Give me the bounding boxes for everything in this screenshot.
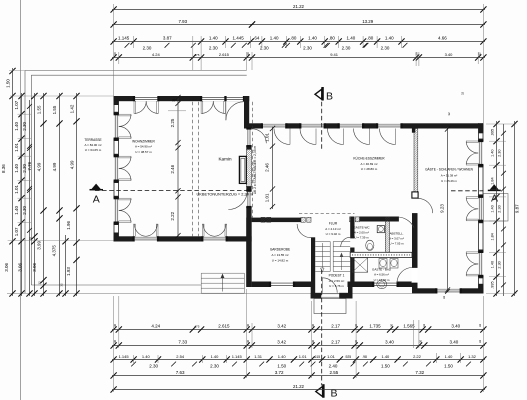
- bad south window: [373, 281, 397, 287]
- svg-text:PODEST 1: PODEST 1: [329, 274, 345, 278]
- garderobe east wall / stair wall: [311, 237, 315, 287]
- svg-text:32: 32: [461, 92, 465, 96]
- left chain 7 short: [65, 235, 67, 296]
- flur north jamb blocks west: [301, 217, 305, 222]
- exterior stair south: [201, 272, 244, 274]
- entry porch left stub: [311, 293, 322, 299]
- svg-text:2.615: 2.615: [219, 52, 230, 57]
- shower with X: [352, 258, 368, 272]
- guest interior chain 9.23: [447, 127, 449, 292]
- svg-text:1.01: 1.01: [14, 143, 19, 152]
- svg-text:1.01: 1.01: [265, 132, 270, 141]
- svg-text:1.40: 1.40: [445, 354, 454, 359]
- svg-text:2.25: 2.25: [170, 118, 175, 127]
- svg-text:B: B: [326, 90, 333, 102]
- svg-text:1.01: 1.01: [299, 354, 308, 359]
- west wall window 2: [114, 156, 119, 180]
- svg-text:1.735: 1.735: [369, 323, 381, 328]
- partition kitchen/guest hatched glass wall: [414, 129, 418, 192]
- svg-text:KÜCHE-ESSZIMMER: KÜCHE-ESSZIMMER: [353, 157, 385, 161]
- kitchen west window lower: [246, 191, 252, 207]
- section marker B top: [315, 89, 322, 99]
- svg-text:GÄSTE-WC: GÄSTE-WC: [353, 225, 370, 229]
- top dimension row 21.22: [112, 9, 485, 11]
- svg-text:1.565: 1.565: [403, 323, 415, 328]
- svg-text:4.375: 4.375: [51, 245, 56, 257]
- bottom row D: [112, 375, 485, 377]
- terrace outline inner: [31, 74, 246, 76]
- svg-text:U = 7.05 m: U = 7.05 m: [389, 242, 404, 246]
- svg-text:1.01: 1.01: [327, 354, 336, 359]
- bottom sub labels 2.30 1.50 2.40: [131, 362, 136, 367]
- svg-text:2.30: 2.30: [22, 122, 27, 131]
- guest south window: [436, 288, 460, 293]
- svg-text:UK 2 x STAHLTRÄGER = 2,35 m: UK 2 x STAHLTRÄGER = 2,35 m: [253, 145, 257, 194]
- svg-text:.995: .995: [490, 129, 494, 136]
- svg-text:A = 46.69 m²: A = 46.69 m²: [360, 162, 377, 166]
- svg-text:9.23: 9.23: [440, 204, 445, 213]
- svg-text:2.40: 2.40: [329, 364, 338, 369]
- svg-text:A = 54.90 m²: A = 54.90 m²: [135, 145, 152, 149]
- guest room east wall: [478, 123, 480, 293]
- svg-text:3.40: 3.40: [445, 52, 454, 57]
- svg-text:32: 32: [422, 324, 426, 328]
- bad door in partition: [412, 268, 418, 284]
- svg-text:1.32: 1.32: [468, 354, 477, 359]
- plumbing wall hatched wc/abstell: [385, 217, 389, 252]
- svg-text:2.30: 2.30: [381, 45, 390, 50]
- svg-text:2.30: 2.30: [342, 45, 351, 50]
- garderobe south window: [270, 281, 294, 287]
- flur north jamb blocks east: [350, 217, 354, 222]
- svg-text:7.63: 7.63: [176, 370, 185, 375]
- svg-text:30: 30: [28, 237, 32, 241]
- right chain 2.30 pairs: [503, 124, 505, 296]
- garderobe west wall: [246, 218, 251, 287]
- north wall opening 2: [201, 96, 225, 101]
- guest east window 2: [478, 197, 483, 221]
- svg-text:U = 28.80 m: U = 28.80 m: [361, 167, 378, 171]
- kitchen west wall hatched strip: [246, 149, 251, 186]
- svg-text:1.01: 1.01: [14, 185, 19, 194]
- wc door arc: [341, 237, 351, 247]
- garderobe north wall: [252, 218, 301, 223]
- svg-text:2.30: 2.30: [149, 364, 158, 369]
- svg-text:A = 13.55 m²: A = 13.55 m²: [271, 253, 288, 257]
- svg-text:7.93: 7.93: [179, 19, 188, 24]
- svg-text:7.76: 7.76: [27, 161, 32, 170]
- bad toilet: [377, 280, 387, 289]
- living room north wall: [114, 96, 250, 101]
- svg-text:1.40: 1.40: [142, 354, 151, 359]
- left extension stubs: [10, 95, 114, 97]
- svg-text:A = 84.00 m²: A = 84.00 m²: [84, 143, 101, 147]
- svg-text:2.30: 2.30: [209, 45, 218, 50]
- stair down arrow: [321, 268, 325, 272]
- svg-text:U = 38.57 m: U = 38.57 m: [135, 150, 152, 154]
- svg-text:2.30: 2.30: [22, 206, 27, 215]
- svg-text:1.42: 1.42: [69, 104, 74, 113]
- svg-text:U = 7.39 m: U = 7.39 m: [354, 235, 369, 239]
- svg-text:2.22: 2.22: [413, 354, 422, 359]
- svg-text:1.55: 1.55: [52, 105, 57, 114]
- svg-text:2.30: 2.30: [303, 45, 312, 50]
- left chain 4 7.76: [34, 93, 36, 296]
- right chain 9.87: [514, 121, 516, 296]
- svg-text:3.40: 3.40: [450, 339, 459, 344]
- living corner door arc: [225, 102, 227, 121]
- svg-text:1.50: 1.50: [277, 364, 286, 369]
- svg-text:GARDEROBE: GARDEROBE: [270, 248, 290, 252]
- svg-text:32: 32: [38, 281, 42, 285]
- wc toilet: [366, 240, 374, 250]
- svg-text:2.30: 2.30: [210, 364, 219, 369]
- guest room north wall: [418, 123, 483, 128]
- svg-text:2.615: 2.615: [218, 323, 230, 328]
- entry porch left jog: [311, 287, 316, 299]
- svg-text:1.40: 1.40: [490, 150, 494, 157]
- kitchen north window 1: [262, 123, 286, 128]
- bad sink 2: [390, 259, 398, 269]
- svg-text:1.40: 1.40: [347, 35, 356, 40]
- svg-text:1.40: 1.40: [278, 354, 287, 359]
- entry porch right jog: [348, 287, 353, 299]
- north wall opening 1: [134, 96, 158, 101]
- kitchen north window 2: [300, 123, 324, 128]
- kitchen west chain: [272, 127, 274, 210]
- svg-text:1.40: 1.40: [14, 122, 19, 131]
- guest east window 1: [478, 141, 483, 165]
- svg-text:3.87: 3.87: [163, 35, 172, 40]
- svg-text:UKBETONUNTERZUG = 2,30 m: UKBETONUNTERZUG = 2,30 m: [197, 192, 254, 197]
- svg-text:4.99: 4.99: [69, 160, 74, 169]
- svg-text:1.40: 1.40: [382, 354, 391, 359]
- svg-text:1.145: 1.145: [118, 35, 130, 40]
- bottom row B: [112, 345, 485, 347]
- svg-text:2.17: 2.17: [331, 339, 340, 344]
- entry door arc: [321, 278, 323, 293]
- svg-text:A = 4.13 m²: A = 4.13 m²: [325, 227, 340, 231]
- kitchen west wall lower: [246, 207, 251, 287]
- svg-text:2.30: 2.30: [260, 45, 269, 50]
- svg-text:U = 9.02 m: U = 9.02 m: [326, 232, 341, 236]
- svg-text:1.50: 1.50: [444, 364, 453, 369]
- svg-text:Kamin: Kamin: [218, 157, 231, 162]
- svg-text:A: A: [93, 194, 100, 206]
- svg-text:21.22: 21.22: [293, 4, 305, 9]
- svg-text:A = 3.07 m²: A = 3.07 m²: [389, 237, 404, 241]
- bottom extension lines: [113, 296, 115, 392]
- garderobe north hatch blocks: [261, 217, 265, 222]
- svg-text:1.84: 1.84: [490, 233, 494, 240]
- svg-text:2.30: 2.30: [497, 150, 501, 157]
- svg-text:1.40: 1.40: [385, 35, 394, 40]
- entry door threshold: [321, 293, 339, 295]
- section marker B bottom: [316, 386, 323, 396]
- living south wall window arcs: [134, 224, 136, 236]
- svg-text:1.145: 1.145: [119, 354, 130, 359]
- svg-text:1.40: 1.40: [209, 35, 218, 40]
- steel beam dashed kitchen west: [251, 102, 253, 218]
- west wall window 3: [114, 198, 119, 222]
- svg-text:9.41: 9.41: [330, 52, 339, 57]
- right extension stubs: [486, 123, 517, 125]
- svg-text:.64: .64: [253, 35, 260, 40]
- living interior chain: [177, 96, 179, 238]
- svg-text:2.46: 2.46: [170, 164, 175, 173]
- svg-text:30: 30: [390, 324, 394, 328]
- svg-text:.615: .615: [314, 355, 321, 359]
- left chain outermost 1.50 8.36 3.06: [12, 68, 14, 296]
- dashed opening kitchen to flur: [299, 213, 355, 215]
- svg-text:2.54: 2.54: [176, 354, 185, 359]
- svg-text:1.40: 1.40: [490, 205, 494, 212]
- svg-text:A = 2.56 m²: A = 2.56 m²: [329, 279, 344, 283]
- kitchen west upper door arc: [252, 129, 266, 144]
- svg-text:4.99: 4.99: [52, 162, 57, 171]
- guest east window arcs: [466, 141, 478, 143]
- top dimension row window chain: [112, 41, 485, 43]
- svg-text:U = 64.65 m: U = 64.65 m: [85, 148, 102, 152]
- svg-text:.98: .98: [362, 355, 367, 359]
- wc sink: [377, 226, 384, 233]
- svg-text:7.33: 7.33: [178, 339, 187, 344]
- svg-text:4.66: 4.66: [438, 35, 447, 40]
- svg-text:U = 25.26 m: U = 25.26 m: [441, 179, 457, 183]
- wc/podest wall lower: [350, 248, 354, 288]
- svg-text:1.40: 1.40: [270, 35, 279, 40]
- section marker A left: [90, 189, 104, 191]
- fireplace Kamin: [239, 156, 246, 183]
- step wall between living and kitchen top: [244, 96, 249, 129]
- svg-text:WOHNZIMMER: WOHNZIMMER: [132, 140, 155, 144]
- svg-text:9.87: 9.87: [514, 204, 519, 213]
- living north wall opening arcs: [134, 101, 136, 113]
- bad door arc from guest room: [397, 268, 413, 284]
- left chain 5: [43, 93, 45, 296]
- svg-text:.80: .80: [290, 35, 297, 40]
- kitchen north wall: [244, 123, 418, 128]
- bottom row E 21.22: [112, 389, 485, 391]
- north wall corner door opening: [226, 96, 245, 101]
- ground line south: [7, 293, 412, 295]
- svg-text:3.06: 3.06: [4, 263, 9, 272]
- garderobe door arc: [297, 224, 311, 238]
- partition end post: [412, 192, 418, 198]
- bad sink 1: [379, 259, 387, 269]
- west wall window 1: [114, 114, 119, 138]
- svg-text:1.40: 1.40: [14, 206, 19, 215]
- site boundary line left: [20, 0, 22, 400]
- kitchen north window 4: [377, 123, 401, 128]
- svg-text:32: 32: [442, 296, 446, 300]
- svg-text:3.06: 3.06: [32, 263, 37, 272]
- kitchen west window upper: [246, 129, 252, 147]
- stair up arrow: [341, 255, 343, 271]
- partition wall south of door: [412, 213, 418, 293]
- right chain window chain: [496, 121, 498, 296]
- terrace south edge: [31, 284, 201, 286]
- svg-text:7.32: 7.32: [415, 370, 424, 375]
- living west wall window arcs: [119, 114, 131, 116]
- svg-text:.925: .925: [345, 355, 352, 359]
- svg-text:GÄSTE - SCHLAFEN / WOHNEN: GÄSTE - SCHLAFEN / WOHNEN: [425, 168, 474, 172]
- svg-text:1.96: 1.96: [66, 221, 71, 230]
- svg-text:3.06: 3.06: [18, 263, 23, 272]
- svg-text:32: 32: [171, 98, 175, 102]
- partition stub at north wall: [412, 129, 415, 133]
- svg-text:32: 32: [478, 340, 482, 344]
- svg-text:1.40: 1.40: [490, 261, 494, 268]
- section marker A right: [488, 189, 501, 191]
- svg-text:1.145: 1.145: [232, 354, 243, 359]
- svg-text:2.30: 2.30: [497, 261, 501, 268]
- stair: [315, 241, 330, 243]
- svg-text:.80: .80: [367, 35, 374, 40]
- svg-text:A = 2.00 m²: A = 2.00 m²: [354, 230, 369, 234]
- svg-text:1.93: 1.93: [66, 267, 71, 276]
- south wall east of entry: [348, 282, 413, 288]
- svg-text:21.22: 21.22: [293, 384, 305, 389]
- kitchen west wall cap above fireplace: [246, 146, 251, 149]
- svg-text:3.40: 3.40: [451, 323, 460, 328]
- abstell door opening: [399, 216, 413, 221]
- svg-text:4.24: 4.24: [151, 323, 160, 328]
- section line B bottom: [321, 270, 323, 386]
- svg-text:1.40: 1.40: [308, 35, 317, 40]
- svg-text:TERRASSE: TERRASSE: [84, 138, 101, 142]
- bottom row C: [112, 359, 485, 361]
- svg-text:1.55: 1.55: [36, 105, 41, 114]
- south wall window 2: [202, 236, 226, 241]
- bad north dotted installation wall: [350, 252, 412, 257]
- kitchen west wall stub below fireplace: [246, 186, 251, 190]
- svg-text:1.50: 1.50: [6, 79, 11, 88]
- left chain 8: [76, 93, 78, 296]
- svg-text:3.40: 3.40: [385, 339, 394, 344]
- svg-text:3.42: 3.42: [277, 323, 286, 328]
- svg-text:32: 32: [478, 324, 482, 328]
- left chain 2 window chain: [21, 93, 23, 296]
- svg-text:2.55: 2.55: [330, 370, 339, 375]
- svg-text:2.30: 2.30: [497, 205, 501, 212]
- door arc living to kitchen: [228, 191, 247, 210]
- kitchen south wall east part: [360, 217, 413, 222]
- svg-text:1.07: 1.07: [14, 227, 19, 236]
- svg-text:1.40: 1.40: [211, 354, 220, 359]
- guest door arc: [418, 198, 433, 213]
- section line A right: [451, 190, 483, 192]
- top dimension row 7.93 13.29: [112, 24, 253, 26]
- svg-text:2.30: 2.30: [143, 45, 152, 50]
- svg-text:2.46: 2.46: [265, 163, 270, 172]
- living room west wall: [113, 96, 115, 242]
- svg-text:FLUR: FLUR: [329, 222, 338, 226]
- svg-text:1.01: 1.01: [265, 193, 270, 202]
- svg-text:1.445: 1.445: [232, 35, 244, 40]
- svg-text:3.72: 3.72: [275, 370, 284, 375]
- left chain 3 2.30 pairs: [29, 100, 31, 296]
- section line B top: [321, 88, 323, 150]
- svg-text:A = 6.56 m²: A = 6.56 m²: [374, 273, 389, 277]
- top 2.30 window sublabels: [125, 43, 130, 48]
- svg-text:1.31: 1.31: [254, 354, 263, 359]
- kitchen north window arcs: [289, 129, 291, 145]
- svg-text:4.99: 4.99: [36, 162, 41, 171]
- svg-text:2.17: 2.17: [331, 323, 340, 328]
- svg-text:4.24: 4.24: [152, 52, 161, 57]
- svg-text:1.50: 1.50: [381, 364, 390, 369]
- svg-text:.80: .80: [329, 35, 336, 40]
- south wall window 1: [134, 236, 158, 241]
- svg-text:1.40: 1.40: [14, 164, 19, 173]
- guest room south wall: [412, 288, 483, 293]
- entry exterior steps: [314, 299, 346, 314]
- wc west wall: [350, 217, 354, 239]
- svg-text:ABSTELL.: ABSTELL.: [389, 232, 403, 236]
- steel beam dashed living room: [192, 102, 194, 237]
- svg-text:3.42: 3.42: [277, 339, 286, 344]
- kitchen north window 3: [339, 123, 363, 128]
- svg-text:8.36: 8.36: [1, 164, 6, 173]
- svg-text:U = 5.76 m: U = 5.76 m: [329, 284, 344, 288]
- living room south wall: [114, 236, 252, 241]
- svg-text:32: 32: [447, 112, 451, 116]
- top extension lines: [113, 4, 115, 96]
- svg-text:U = 14.82 m: U = 14.82 m: [272, 259, 289, 263]
- entry porch right stub: [339, 293, 352, 299]
- svg-text:A = 31.38 m²: A = 31.38 m²: [441, 173, 458, 177]
- section line A left: [95, 190, 252, 192]
- svg-text:3.99: 3.99: [36, 240, 41, 249]
- terrace outline outer: [25, 70, 247, 72]
- svg-text:32: 32: [59, 283, 63, 287]
- south wall of middle section: [252, 282, 312, 288]
- svg-text:475: 475: [194, 53, 199, 57]
- svg-text:1.07: 1.07: [14, 100, 19, 109]
- svg-text:.995: .995: [490, 281, 494, 288]
- guest east window 3: [478, 252, 483, 276]
- abstell door arc: [399, 217, 415, 228]
- exterior landing right: [483, 194, 508, 222]
- top dimension row 4: [112, 57, 485, 59]
- svg-text:13.29: 13.29: [362, 19, 374, 24]
- svg-text:1.84: 1.84: [490, 177, 494, 184]
- svg-text:2.22: 2.22: [170, 211, 175, 220]
- bottom row A: [112, 329, 485, 331]
- left chain 6: [59, 93, 61, 296]
- svg-text:475: 475: [194, 324, 199, 328]
